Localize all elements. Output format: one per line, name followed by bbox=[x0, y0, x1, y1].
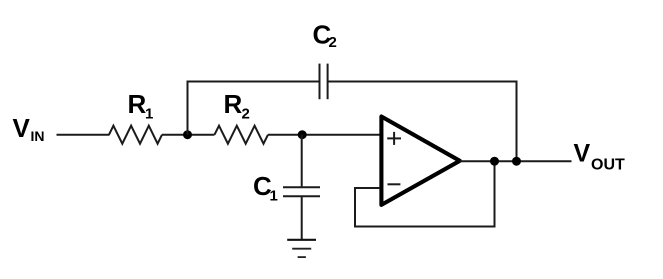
minus input symbol bbox=[388, 183, 401, 185]
wire node A up to top feedback rail bbox=[187, 81, 189, 135]
svg-text:2: 2 bbox=[242, 106, 250, 123]
wire output from op-amp apex to V_OUT bbox=[460, 160, 572, 162]
wire top rail right segment from C2 to right corner bbox=[329, 81, 518, 83]
plus input symbol bbox=[387, 137, 401, 139]
wire C1 to ground bbox=[301, 197, 303, 240]
svg-text:1: 1 bbox=[270, 188, 278, 205]
op-amp U1 bbox=[381, 117, 459, 205]
svg-text:R: R bbox=[128, 89, 147, 119]
resistor R1 bbox=[109, 89, 162, 144]
svg-text:IN: IN bbox=[31, 128, 45, 144]
ground bbox=[287, 240, 316, 257]
wire node B down to C1 bbox=[301, 135, 303, 187]
node A junction dot bbox=[183, 130, 192, 139]
svg-text:V: V bbox=[13, 113, 31, 143]
svg-text:OUT: OUT bbox=[591, 157, 625, 174]
node B junction dot bbox=[298, 130, 307, 139]
wire down from top rail to output node B bbox=[516, 81, 518, 162]
label V_OUT bbox=[574, 140, 626, 174]
svg-text:V: V bbox=[574, 140, 591, 168]
wire R2 to op-amp noninverting input bbox=[268, 134, 380, 136]
wire top rail left segment to C2 bbox=[187, 81, 319, 83]
label V_IN bbox=[13, 113, 45, 144]
node D output junction dot (C2 rail tap) bbox=[512, 157, 521, 166]
wire R1 to R2 bbox=[162, 134, 215, 136]
wire input from V_IN to R1 bbox=[57, 134, 110, 136]
capacitor C2 bbox=[313, 20, 337, 100]
node C output junction dot (feedback tap) bbox=[490, 157, 499, 166]
svg-text:2: 2 bbox=[329, 34, 337, 51]
resistor R2 bbox=[215, 89, 269, 144]
capacitor C1 bbox=[253, 171, 320, 205]
wire feedback from inverting input: left, down, right, up to output node bbox=[355, 161, 495, 226]
svg-text:R: R bbox=[224, 89, 243, 119]
svg-text:1: 1 bbox=[145, 106, 153, 123]
